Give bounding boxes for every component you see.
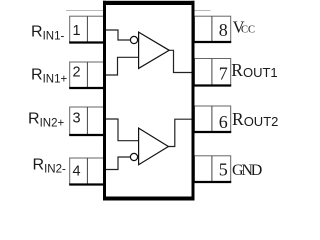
svg-text:2: 2: [72, 65, 80, 81]
svg-text:GND: GND: [232, 162, 262, 179]
svg-text:6: 6: [219, 112, 228, 132]
svg-text:3: 3: [72, 111, 80, 127]
svg-text:8: 8: [219, 20, 228, 40]
svg-text:4: 4: [72, 164, 80, 180]
svg-text:7: 7: [219, 63, 228, 83]
svg-text:1: 1: [72, 23, 80, 39]
svg-text:5: 5: [219, 160, 228, 180]
